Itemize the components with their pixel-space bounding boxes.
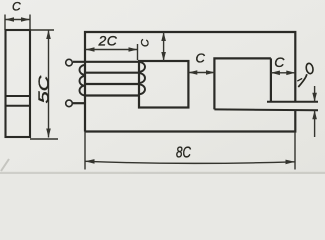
coil wire turn 3 bbox=[85, 83, 139, 85]
scan artifact: bottom edge shadow bbox=[0, 172, 325, 174]
air gap lower face / bottom yoke top edge (extended right) bbox=[214, 108, 318, 111]
coil right loop a bbox=[139, 62, 145, 72]
main view: right limb left edge bbox=[270, 58, 272, 101]
dimension 8c right extension line bbox=[294, 132, 296, 170]
dimension 8c left extension line bbox=[84, 132, 86, 170]
main view: core outer outline with air gap on right side bbox=[85, 32, 295, 132]
svg-text:C: C bbox=[12, 0, 21, 13]
dimension 2c right extension line bbox=[137, 44, 139, 60]
main view: left core window bbox=[139, 61, 188, 108]
coil wire turn 1 bbox=[73, 61, 139, 63]
dimension 5c line with arrows bbox=[46, 30, 51, 138]
svg-text:C: C bbox=[196, 51, 206, 66]
svg-text:2C: 2C bbox=[98, 33, 118, 49]
scan artifact: bottom left corner mark bbox=[1, 159, 9, 171]
coil terminal lower bbox=[66, 100, 73, 107]
main view: right core window bbox=[214, 58, 271, 109]
dimension l0 (air gap) upper arrow bbox=[312, 86, 317, 102]
air gap upper face line (pole bottom, extended right) bbox=[267, 101, 318, 103]
svg-text:C: C bbox=[274, 54, 285, 70]
coil wire turn 2 bbox=[85, 72, 139, 74]
coil terminal upper bbox=[66, 59, 73, 66]
dimension c (top yoke) line with arrows bbox=[161, 32, 166, 61]
coil wire turn 4 bbox=[85, 94, 139, 96]
coil right loop b bbox=[139, 73, 145, 83]
svg-text:C: C bbox=[140, 39, 152, 47]
dimension c (side view width) extension lines bbox=[5, 15, 30, 31]
dimension c (right limb) line with arrows bbox=[271, 71, 295, 76]
dimension 5c extension lines bbox=[30, 30, 58, 139]
coil left loop c bbox=[80, 86, 86, 96]
dimension l0 (air gap) lower arrow bbox=[312, 110, 317, 137]
dimension 2c line with arrows bbox=[86, 47, 138, 52]
dimension c (middle limb) line with arrows bbox=[188, 70, 215, 75]
coil left loop b bbox=[80, 76, 86, 86]
label l0 (air gap, rotated cursive ell with subscript zero) bbox=[297, 63, 314, 87]
dimension 8c line with arrows bbox=[85, 159, 295, 164]
coil wire to lower terminal bbox=[73, 102, 85, 104]
coil left loop a bbox=[80, 65, 86, 75]
side view: bottom yoke edge line upper bbox=[6, 95, 31, 97]
side view: core lamination stack outline bbox=[6, 30, 31, 137]
dimension c (side view width) line with arrows bbox=[5, 17, 30, 22]
svg-text:8C: 8C bbox=[176, 144, 192, 161]
coil right loop c bbox=[139, 84, 145, 94]
side view: bottom yoke edge line lower bbox=[6, 105, 31, 107]
svg-text:5C: 5C bbox=[36, 75, 53, 103]
